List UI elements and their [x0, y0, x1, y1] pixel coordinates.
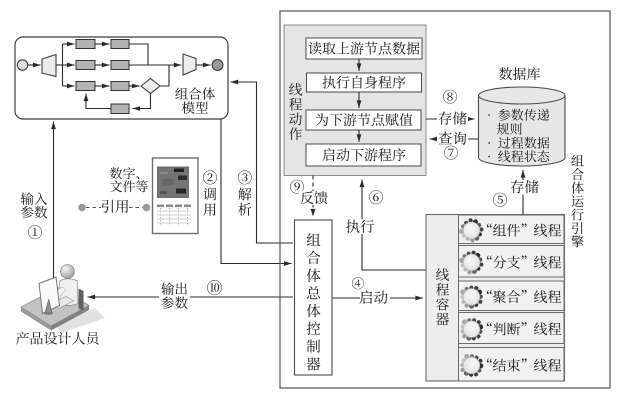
composite model rounded box 组合体模型: [15, 37, 228, 119]
database cylinder 数据库: [479, 96, 566, 167]
model: split trapezoid: [42, 55, 56, 77]
wire call 调用 model->controller: [221, 119, 292, 264]
thread action box 线程动作: [284, 25, 426, 176]
wire start 启动 controller->container: [332, 297, 423, 299]
step box 启动下游程序: [306, 144, 421, 166]
thread row “结束” 线程: [459, 348, 565, 382]
product designer person icon: [21, 265, 105, 334]
model: row3 wire into A3: [63, 85, 75, 87]
model: row2 wire into A2: [63, 64, 75, 66]
model: feedback task box F: [111, 104, 129, 114]
composite run engine outer box: [280, 11, 610, 388]
thread container box 线程容器: [426, 215, 565, 382]
arrow step2->step3: [358, 92, 360, 108]
label 输入参数: [21, 192, 47, 205]
arrow step3->step4: [358, 130, 360, 142]
wire store 存储 container->database: [522, 170, 524, 215]
dashed wire feedback 反馈: [312, 176, 314, 217]
label circled 5 存储: [493, 193, 507, 207]
model: feedback wire F->A3: [86, 94, 111, 109]
database list text: [488, 109, 549, 121]
label 引用: [102, 200, 129, 213]
label circled 9 反馈: [290, 180, 304, 194]
digital file icon table: [157, 205, 191, 225]
label 组合体模型: [175, 87, 215, 99]
model: arrow start->split: [28, 64, 41, 66]
wire store 存储 action->database: [426, 118, 475, 120]
label circled 2 调用: [203, 170, 217, 184]
model: task box A3: [76, 82, 95, 91]
label 线程容器 vertical: [436, 268, 449, 325]
step box 执行自身程序: [307, 73, 422, 92]
label 产品设计人员: [16, 332, 99, 345]
model: fan-out wires: [56, 64, 63, 66]
reference dot right: [143, 204, 151, 212]
thread row “组件” 线程: [459, 215, 565, 244]
model: decision diamond: [141, 79, 160, 94]
label 组合体运行引擎 vertical: [571, 155, 583, 248]
label 数字、文件等: [110, 167, 139, 179]
model: task box B2: [111, 61, 129, 70]
dashed wire 引用 right: [129, 207, 143, 209]
digital file monitor icon 数字文件: [153, 158, 199, 234]
model: task box B3: [111, 82, 129, 91]
label circled 4 启动: [352, 277, 364, 289]
label circled 8 存储: [443, 90, 457, 104]
thread row “判断” 线程: [459, 313, 565, 344]
label 输出参数: [159, 281, 190, 311]
model: row1 wire into A1: [63, 43, 75, 45]
thread row “聚合” 线程: [459, 281, 565, 311]
dashed wire 引用 left: [86, 207, 101, 209]
model: arrow merge->end: [196, 64, 211, 66]
label circled 3 解析: [238, 170, 252, 184]
model: start node circle: [17, 60, 27, 70]
model: end node circle: [212, 60, 223, 71]
model: row1 wire down to row2: [129, 44, 148, 65]
label circled 6 执行: [369, 190, 383, 204]
wire output parameters 输出参数: [88, 296, 294, 298]
model: arrow A3->B3: [95, 85, 110, 87]
model: arrow A2->B2: [95, 64, 110, 66]
model: task box A1: [76, 40, 95, 49]
model: diamond wire up to row2: [160, 66, 169, 87]
step box 为下游节点赋值: [306, 110, 421, 130]
model: merge trapezoid: [183, 54, 196, 75]
model: arrow B3->diamond: [129, 85, 140, 87]
step box 读取上游节点数据: [306, 38, 422, 59]
label 查询 circled 7: [439, 132, 467, 145]
wire execute 执行 container->thread action: [362, 180, 426, 271]
model: task box A2: [76, 61, 95, 70]
wire parse 解析 controller->model: [231, 82, 294, 243]
model: arrow A1->B1: [95, 43, 110, 45]
reference dot left: [78, 204, 86, 212]
wire query 查询 database->action: [430, 138, 479, 140]
model: task box B1: [111, 40, 129, 49]
label circled 1: [28, 225, 42, 239]
label 线程动作 vertical: [289, 83, 302, 140]
thread row “分支” 线程: [459, 246, 565, 278]
label circled 10: [207, 280, 222, 295]
controller box 组合体总体控制器: [295, 220, 333, 375]
arrow step1->step2: [358, 59, 360, 71]
model: feedback wire diamond->F box: [133, 94, 151, 109]
label 数据库: [499, 67, 540, 80]
model: row2 wire into merge trapezoid: [129, 64, 182, 66]
wire input parameters arrow 输入参数: [53, 122, 55, 290]
